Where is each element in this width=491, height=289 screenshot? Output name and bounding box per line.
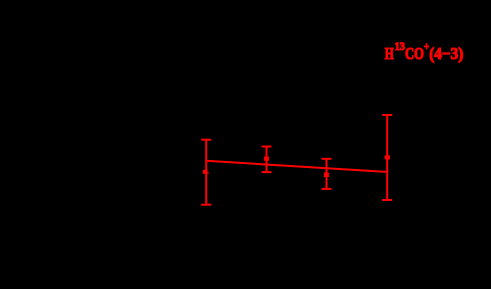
svg-text:13: 13 xyxy=(395,39,405,53)
error bar 3 top cap xyxy=(322,158,332,160)
svg-text:CO: CO xyxy=(405,44,424,63)
error bar 2 bottom cap xyxy=(262,171,272,173)
error bar 1 stem xyxy=(205,140,207,205)
svg-text:H: H xyxy=(385,44,394,63)
marker point 3 xyxy=(324,173,329,178)
error bar 1 bottom cap xyxy=(201,204,211,206)
error bar 4 stem xyxy=(386,115,388,200)
label H13CO+(4-3) xyxy=(385,39,464,63)
marker point 1 xyxy=(203,170,208,174)
error bar 2 top cap xyxy=(262,146,272,148)
error bar 1 top cap xyxy=(201,139,211,141)
error bar 4 bottom cap xyxy=(382,199,392,201)
error bar 3 stem xyxy=(326,159,328,189)
error bar 3 bottom cap xyxy=(322,188,332,190)
svg-text:(4−3): (4−3) xyxy=(429,44,463,63)
marker point 2 xyxy=(264,157,269,161)
error bar 2 stem xyxy=(266,147,268,173)
fit line xyxy=(206,161,387,172)
error bar 4 top cap xyxy=(382,114,392,116)
marker point 4 xyxy=(385,155,390,159)
